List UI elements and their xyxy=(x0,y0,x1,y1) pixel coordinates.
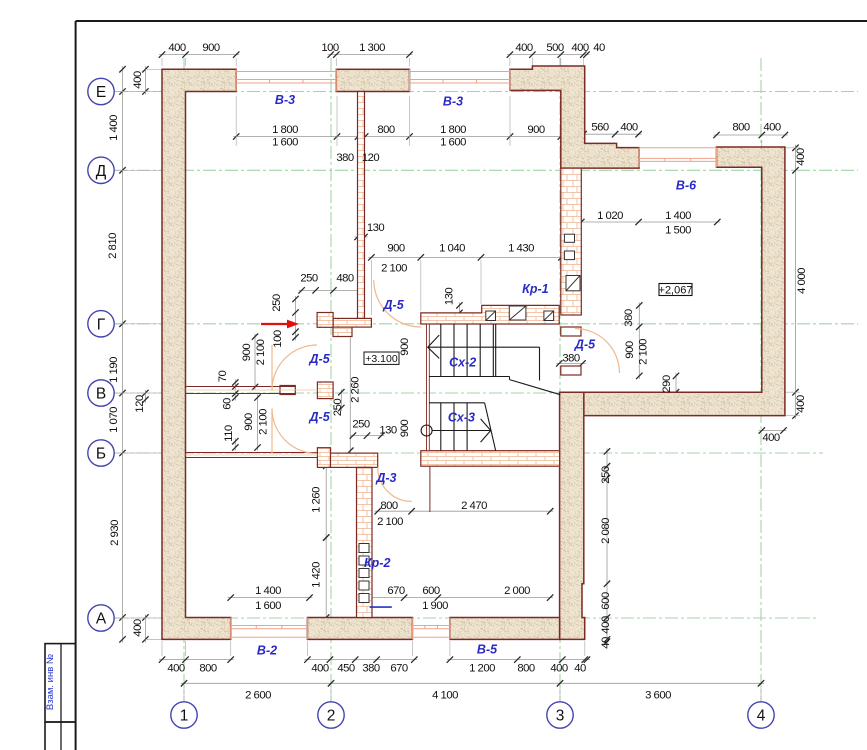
svg-text:670: 670 xyxy=(390,663,408,675)
svg-text:Кр-2: Кр-2 xyxy=(364,556,390,570)
svg-text:Д-5: Д-5 xyxy=(574,338,596,352)
svg-text:40: 40 xyxy=(593,42,605,54)
svg-text:800: 800 xyxy=(380,500,398,512)
svg-text:130: 130 xyxy=(379,425,397,437)
svg-text:2 080: 2 080 xyxy=(600,518,612,544)
svg-text:900: 900 xyxy=(387,243,405,255)
svg-text:900: 900 xyxy=(527,124,545,136)
svg-text:400: 400 xyxy=(311,663,329,675)
svg-text:400: 400 xyxy=(620,122,638,134)
svg-text:Г: Г xyxy=(97,316,106,333)
svg-text:3: 3 xyxy=(556,708,565,725)
svg-text:100: 100 xyxy=(321,42,339,54)
svg-text:250: 250 xyxy=(271,294,283,312)
svg-text:900: 900 xyxy=(624,341,636,359)
svg-text:+2,067: +2,067 xyxy=(659,284,693,296)
svg-text:400: 400 xyxy=(550,663,568,675)
svg-text:4 100: 4 100 xyxy=(432,690,458,702)
svg-text:110: 110 xyxy=(223,425,235,442)
svg-text:2 930: 2 930 xyxy=(109,520,121,546)
svg-text:380: 380 xyxy=(362,663,380,675)
svg-text:1 500: 1 500 xyxy=(665,225,691,237)
svg-text:2: 2 xyxy=(327,708,336,725)
svg-text:130: 130 xyxy=(444,288,456,306)
svg-text:2 000: 2 000 xyxy=(504,585,530,597)
svg-text:120: 120 xyxy=(362,152,380,164)
svg-text:Б: Б xyxy=(96,446,106,463)
svg-text:450: 450 xyxy=(337,663,355,675)
svg-text:40: 40 xyxy=(600,637,612,649)
svg-text:1 190: 1 190 xyxy=(108,357,120,383)
svg-text:900: 900 xyxy=(241,344,253,362)
svg-text:290: 290 xyxy=(661,375,673,393)
svg-text:400: 400 xyxy=(600,616,612,634)
svg-text:1 900: 1 900 xyxy=(422,600,448,612)
svg-text:560: 560 xyxy=(591,122,609,134)
svg-text:3 600: 3 600 xyxy=(645,690,671,702)
svg-text:Сх-3: Сх-3 xyxy=(448,411,475,425)
svg-text:500: 500 xyxy=(546,42,564,54)
svg-text:1 300: 1 300 xyxy=(359,42,385,54)
svg-text:2 470: 2 470 xyxy=(461,500,487,512)
svg-text:250: 250 xyxy=(300,273,318,285)
svg-text:400: 400 xyxy=(132,619,144,637)
svg-text:100: 100 xyxy=(272,330,284,348)
svg-text:В-6: В-6 xyxy=(676,179,697,193)
svg-text:250: 250 xyxy=(600,466,612,484)
svg-text:60: 60 xyxy=(222,398,234,410)
svg-text:40: 40 xyxy=(574,663,586,675)
svg-text:1 420: 1 420 xyxy=(311,562,323,588)
svg-text:800: 800 xyxy=(199,663,217,675)
svg-text:Д: Д xyxy=(96,163,107,180)
svg-text:1 020: 1 020 xyxy=(597,210,623,222)
svg-text:600: 600 xyxy=(600,592,612,610)
svg-text:800: 800 xyxy=(732,122,750,134)
svg-text:2 260: 2 260 xyxy=(350,377,362,403)
svg-text:900: 900 xyxy=(243,413,255,431)
svg-text:2 100: 2 100 xyxy=(381,263,407,275)
svg-text:1 400: 1 400 xyxy=(255,585,281,597)
svg-text:400: 400 xyxy=(795,148,807,166)
svg-text:А: А xyxy=(96,611,107,628)
svg-text:Е: Е xyxy=(96,84,106,101)
svg-text:1 260: 1 260 xyxy=(311,487,323,513)
svg-text:1 400: 1 400 xyxy=(665,210,691,222)
svg-text:380: 380 xyxy=(336,152,354,164)
svg-text:400: 400 xyxy=(571,42,589,54)
svg-text:130: 130 xyxy=(367,222,385,234)
svg-text:2 100: 2 100 xyxy=(258,409,270,435)
svg-text:1 040: 1 040 xyxy=(439,243,465,255)
svg-text:Сх-2: Сх-2 xyxy=(449,356,476,370)
svg-text:400: 400 xyxy=(515,42,533,54)
svg-text:1 800: 1 800 xyxy=(272,124,298,136)
svg-text:400: 400 xyxy=(132,71,144,89)
svg-text:400: 400 xyxy=(762,432,780,444)
svg-text:2 600: 2 600 xyxy=(245,690,271,702)
svg-text:1 430: 1 430 xyxy=(508,243,534,255)
svg-text:70: 70 xyxy=(217,371,229,383)
svg-text:2 100: 2 100 xyxy=(255,339,267,365)
svg-text:В-3: В-3 xyxy=(275,93,295,107)
svg-text:+3.100: +3.100 xyxy=(365,353,398,365)
svg-text:Д-5: Д-5 xyxy=(309,352,331,366)
svg-text:1 400: 1 400 xyxy=(108,115,120,141)
svg-text:Кр-1: Кр-1 xyxy=(522,282,548,296)
svg-text:400: 400 xyxy=(763,122,781,134)
svg-text:250: 250 xyxy=(332,399,344,417)
svg-text:В-3: В-3 xyxy=(443,95,463,109)
svg-text:2 810: 2 810 xyxy=(107,233,119,259)
svg-text:400: 400 xyxy=(795,395,807,413)
svg-text:900: 900 xyxy=(202,42,220,54)
svg-text:800: 800 xyxy=(517,663,535,675)
svg-text:1 070: 1 070 xyxy=(108,407,120,433)
svg-text:900: 900 xyxy=(399,420,411,438)
svg-text:В: В xyxy=(96,386,106,403)
svg-text:2 100: 2 100 xyxy=(377,516,403,528)
svg-text:1 600: 1 600 xyxy=(272,137,298,149)
svg-text:250: 250 xyxy=(352,419,370,431)
svg-text:1 200: 1 200 xyxy=(469,663,495,675)
svg-text:1 800: 1 800 xyxy=(440,124,466,136)
svg-text:380: 380 xyxy=(623,309,635,327)
svg-text:Д-5: Д-5 xyxy=(309,410,331,424)
svg-text:670: 670 xyxy=(387,585,405,597)
svg-text:900: 900 xyxy=(399,338,411,356)
svg-text:Д-5: Д-5 xyxy=(383,298,405,312)
svg-text:600: 600 xyxy=(422,585,440,597)
svg-text:120: 120 xyxy=(134,395,146,413)
svg-text:400: 400 xyxy=(168,42,186,54)
svg-text:В-2: В-2 xyxy=(257,644,277,658)
svg-text:4 000: 4 000 xyxy=(796,268,808,294)
svg-text:Взам. инв №: Взам. инв № xyxy=(45,654,56,710)
svg-text:1 600: 1 600 xyxy=(255,600,281,612)
svg-text:800: 800 xyxy=(377,124,395,136)
svg-text:1: 1 xyxy=(180,708,189,725)
svg-text:480: 480 xyxy=(336,273,354,285)
svg-text:В-5: В-5 xyxy=(477,643,498,657)
svg-text:4: 4 xyxy=(757,708,766,725)
svg-text:380: 380 xyxy=(562,353,580,365)
svg-text:Д-3: Д-3 xyxy=(375,471,396,485)
svg-text:1 600: 1 600 xyxy=(440,137,466,149)
svg-text:2 100: 2 100 xyxy=(638,339,650,365)
svg-text:400: 400 xyxy=(167,663,185,675)
